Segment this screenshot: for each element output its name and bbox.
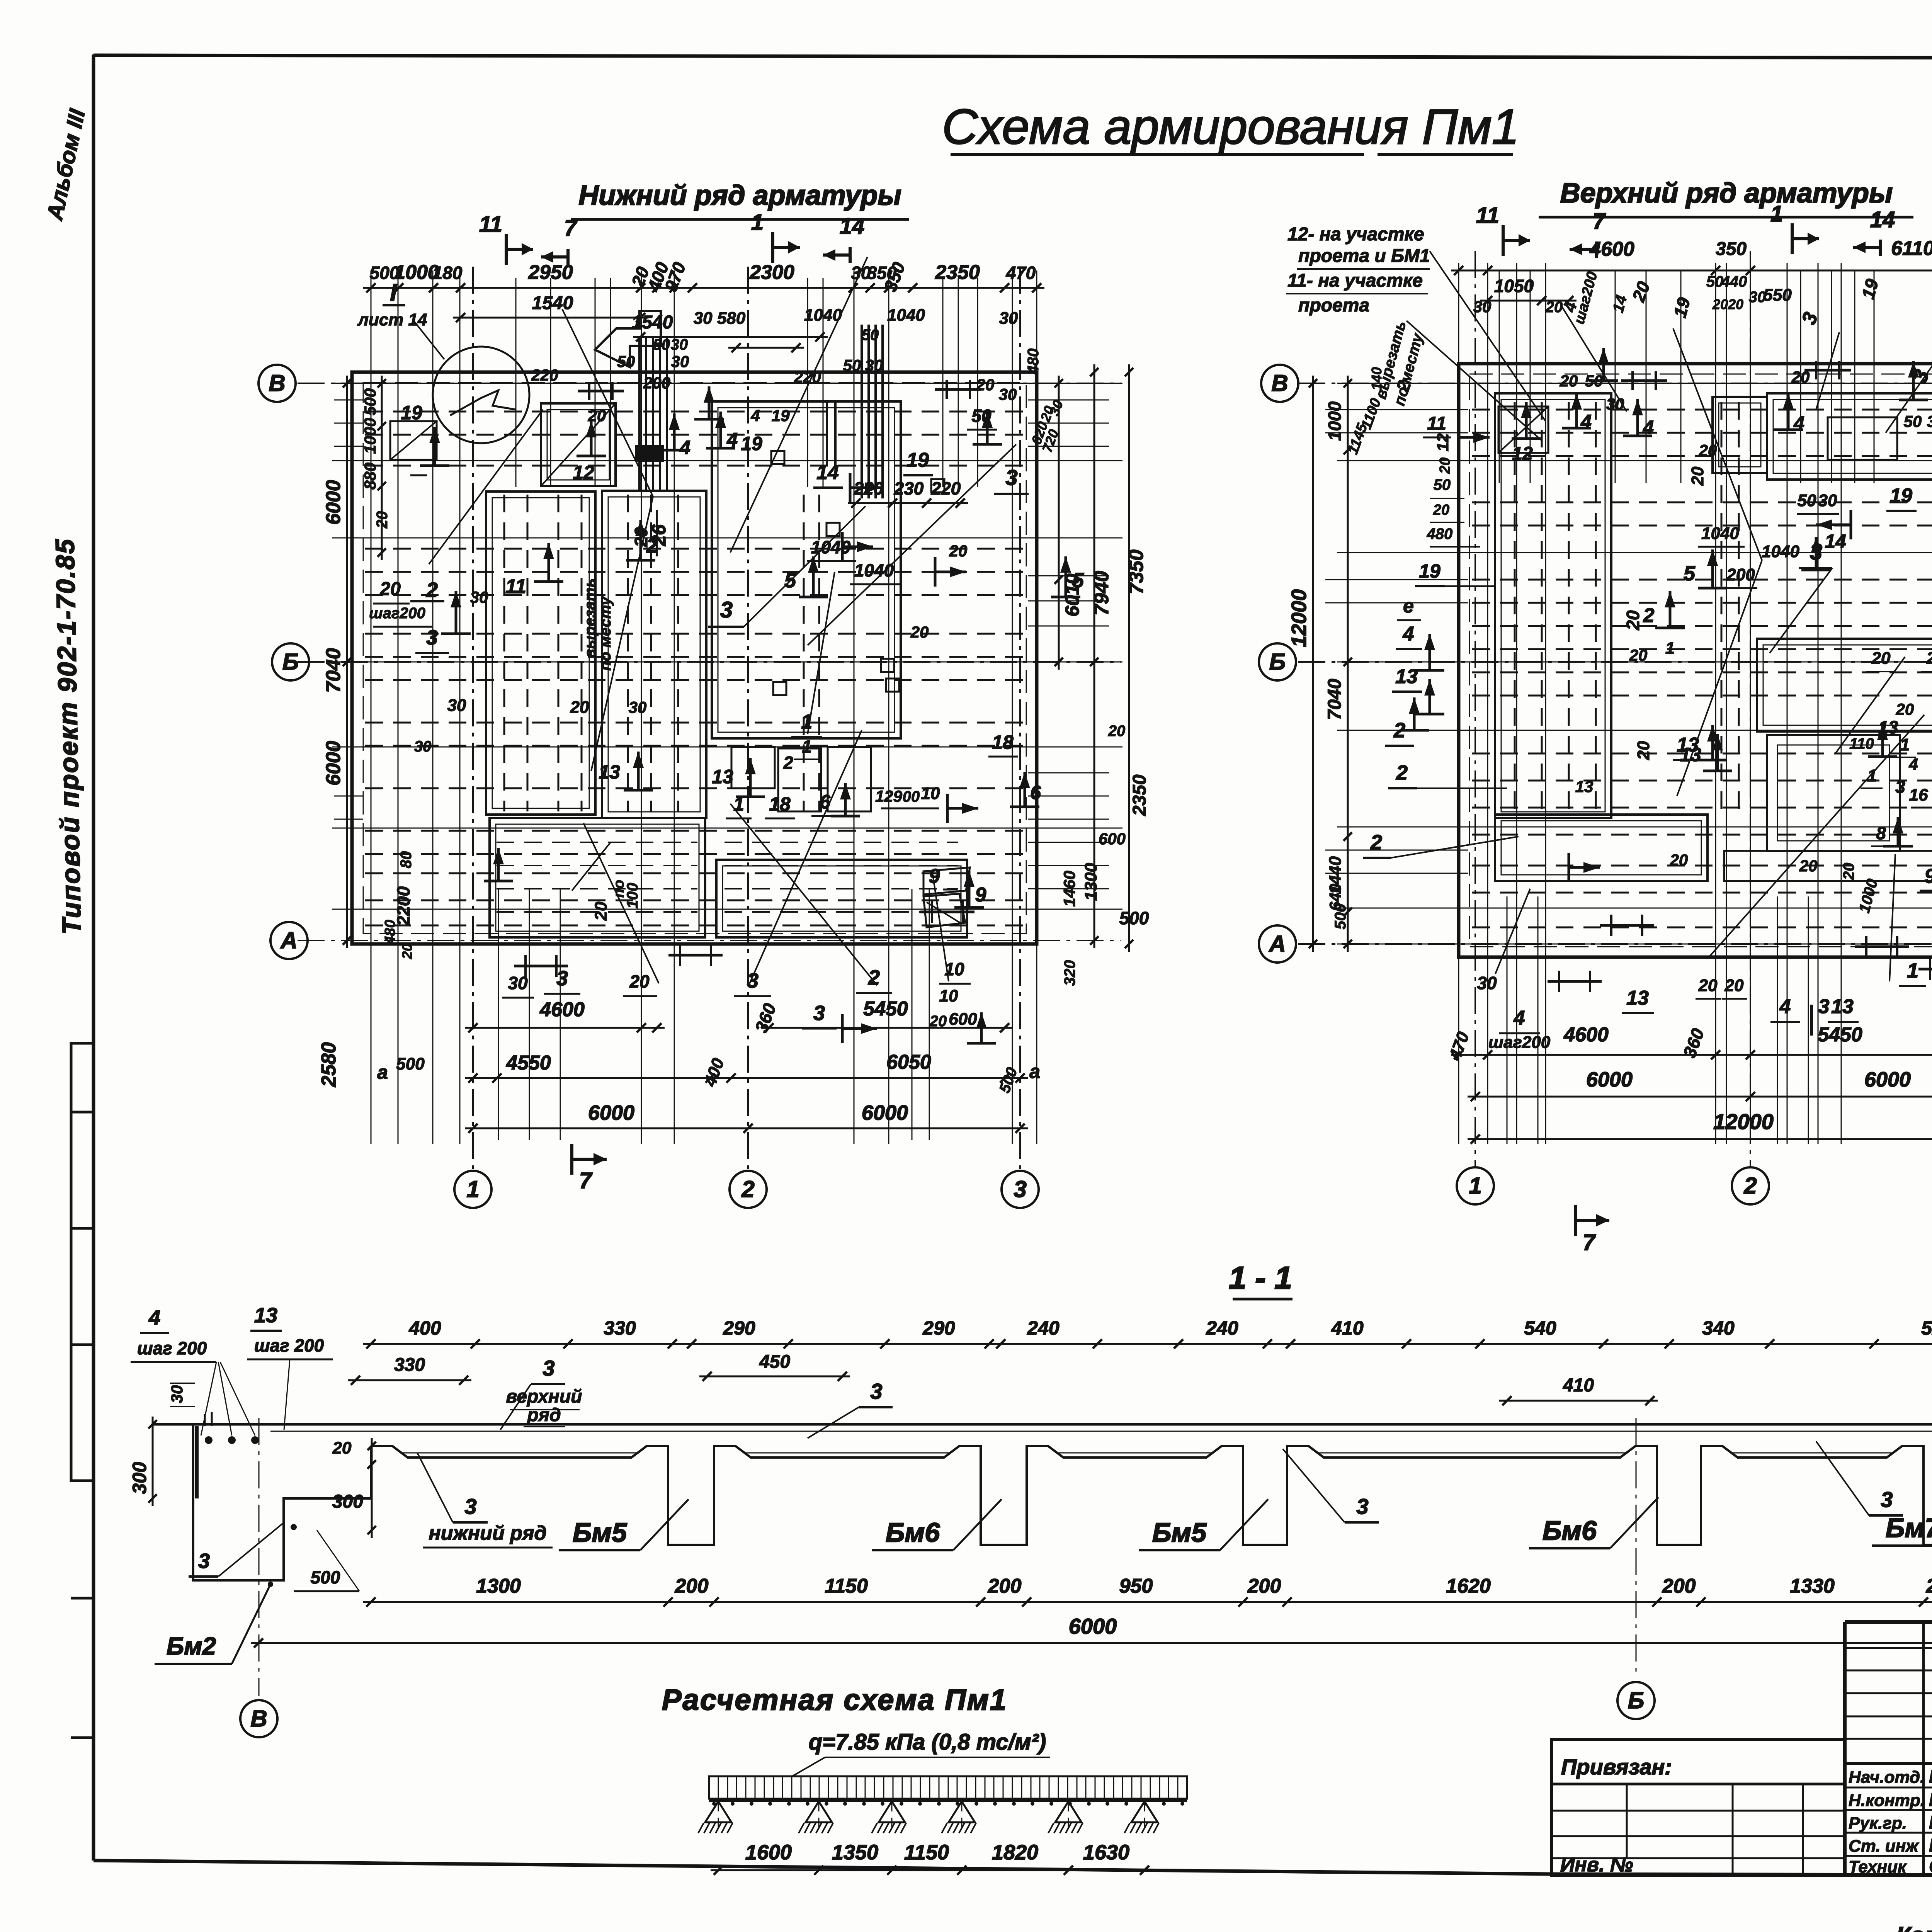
svg-text:4: 4	[679, 437, 690, 458]
left dims left plan	[318, 376, 589, 1087]
svg-text:1: 1	[1665, 639, 1675, 658]
section slab profile	[153, 1412, 1932, 1580]
svg-text:14: 14	[840, 214, 865, 239]
svg-text:600: 600	[949, 1010, 977, 1029]
axis circle A right	[1259, 925, 1296, 963]
svg-text:290: 290	[922, 1317, 955, 1339]
svg-text:12: 12	[1434, 434, 1452, 452]
right plan dashed rebar lines	[1472, 402, 1932, 927]
svg-text:30: 30	[671, 352, 689, 371]
svg-text:1040: 1040	[887, 306, 925, 325]
section bottom dims	[251, 1575, 1932, 1648]
left plan title	[571, 180, 909, 219]
svg-text:3: 3	[1895, 777, 1905, 797]
svg-text:6000: 6000	[862, 1101, 908, 1124]
svg-text:4: 4	[1514, 1007, 1525, 1029]
svg-text:13: 13	[1575, 777, 1594, 796]
svg-text:129: 129	[875, 787, 903, 805]
left dims right plan	[1287, 319, 1480, 952]
svg-text:30: 30	[414, 738, 432, 755]
svg-text:Привязан:: Привязан:	[1561, 1755, 1672, 1779]
svg-text:20: 20	[374, 511, 391, 529]
svg-text:20: 20	[1840, 863, 1857, 881]
svg-text:проета: проета	[1298, 295, 1369, 316]
svg-text:лист 14: лист 14	[357, 310, 427, 329]
svg-text:30 580: 30 580	[694, 309, 746, 328]
svg-text:10: 10	[944, 959, 964, 979]
svg-text:2: 2	[741, 1176, 754, 1202]
extra small labels left plan	[470, 352, 1017, 881]
axis circle 2 left	[730, 1171, 767, 1208]
privyazan table	[1551, 1740, 1845, 1876]
svg-text:20: 20	[1688, 466, 1707, 486]
svg-text:20: 20	[379, 579, 401, 599]
svg-text:7: 7	[579, 1168, 593, 1193]
svg-text:30: 30	[999, 309, 1018, 328]
title block stamp	[1551, 1622, 1932, 1875]
axis circle B left	[272, 643, 309, 680]
svg-text:1460: 1460	[1060, 871, 1078, 906]
right plan leader diagonals	[1406, 305, 1932, 1082]
axis circle 1 left	[454, 1171, 492, 1208]
svg-text:300: 300	[129, 1462, 150, 1494]
svg-text:80: 80	[398, 851, 415, 869]
svg-text:10: 10	[921, 784, 940, 803]
svg-text:7350: 7350	[1125, 549, 1148, 594]
svg-text:470: 470	[1006, 263, 1036, 283]
svg-text:Кунцевич: Кунцевич	[1929, 1813, 1932, 1833]
svg-text:950: 950	[1119, 1575, 1153, 1597]
right dims left plan	[1025, 349, 1150, 986]
section title 1-1	[1229, 1260, 1293, 1299]
svg-text:220: 220	[794, 368, 821, 386]
svg-text:20: 20	[399, 944, 415, 959]
svg-text:Верхний ряд арматуры: Верхний ряд арматуры	[1560, 178, 1893, 209]
svg-text:3: 3	[813, 1002, 825, 1025]
svg-text:30: 30	[447, 696, 466, 715]
svg-text:3: 3	[870, 1379, 882, 1403]
svg-text:1000: 1000	[361, 418, 379, 454]
svg-text:шаг 200: шаг 200	[137, 1338, 207, 1358]
svg-text:500: 500	[311, 1567, 340, 1587]
svg-text:7: 7	[1593, 209, 1606, 234]
svg-text:19: 19	[741, 433, 762, 454]
svg-text:13: 13	[1878, 717, 1898, 737]
left plan internal rects	[390, 401, 970, 937]
svg-text:2300: 2300	[749, 261, 794, 284]
svg-text:4600: 4600	[539, 998, 585, 1021]
svg-text:11: 11	[1427, 413, 1446, 434]
svg-text:200: 200	[1662, 1575, 1696, 1597]
svg-text:30: 30	[1818, 491, 1837, 510]
svg-text:6000: 6000	[322, 741, 345, 786]
svg-text:4: 4	[1643, 417, 1654, 438]
right plan axis lines	[1298, 251, 1932, 1167]
svg-text:50: 50	[617, 352, 635, 371]
top-left label block right plan	[1286, 224, 1546, 421]
rebar symbols left plan	[369, 402, 1084, 921]
right plan outline	[1459, 364, 1932, 957]
svg-text:2: 2	[1743, 1173, 1757, 1199]
svg-text:500: 500	[361, 388, 379, 415]
svg-text:q=7.85 кПа (0,8 тс/м²): q=7.85 кПа (0,8 тс/м²)	[809, 1730, 1046, 1755]
svg-text:3: 3	[747, 969, 759, 992]
rebar clusters right plan top	[1621, 361, 1932, 390]
svg-text:1: 1	[1770, 201, 1783, 226]
svg-text:1 - 1: 1 - 1	[1229, 1260, 1292, 1296]
rebar symbols right plan	[1512, 361, 1932, 915]
svg-text:1150: 1150	[825, 1575, 868, 1597]
svg-text:2: 2	[1370, 831, 1382, 854]
axis circle B right	[1259, 643, 1296, 680]
svg-text:520: 520	[1921, 1317, 1932, 1339]
svg-text:4600: 4600	[1563, 1024, 1609, 1046]
section top dims	[348, 1317, 1932, 1405]
svg-text:20: 20	[1560, 372, 1578, 390]
svg-text:12000: 12000	[1287, 589, 1311, 647]
svg-text:3: 3	[556, 967, 568, 990]
svg-text:220: 220	[931, 478, 961, 498]
svg-text:3: 3	[426, 626, 438, 649]
left margin labels right plan	[1345, 378, 1799, 858]
svg-text:1000: 1000	[394, 261, 439, 284]
svg-text:20: 20	[1725, 976, 1744, 995]
svg-text:Власенко: Власенко	[1929, 1790, 1932, 1810]
svg-text:Техник: Техник	[1849, 1857, 1907, 1876]
svg-text:50: 50	[1434, 476, 1451, 493]
svg-text:Нач.отд.: Нач.отд.	[1849, 1768, 1925, 1787]
svg-text:50: 50	[653, 336, 670, 353]
svg-text:1: 1	[802, 736, 812, 757]
bottom dims left plan	[377, 986, 1040, 1133]
main title	[942, 99, 1519, 155]
svg-text:4: 4	[1779, 995, 1791, 1018]
svg-text:3: 3	[1005, 465, 1017, 490]
svg-text:340: 340	[1702, 1317, 1735, 1339]
svg-text:12: 12	[573, 462, 594, 483]
svg-text:В: В	[269, 370, 285, 396]
svg-text:20: 20	[1728, 296, 1743, 312]
svg-text:290: 290	[723, 1317, 755, 1339]
svg-text:19: 19	[401, 402, 422, 423]
svg-text:20: 20	[1629, 646, 1648, 664]
svg-text:6000: 6000	[1586, 1068, 1633, 1091]
right plan internal rects	[1495, 393, 1932, 897]
left plan detail circle I	[357, 279, 529, 443]
svg-text:20: 20	[929, 1013, 947, 1030]
svg-text:по месту: по месту	[597, 596, 614, 671]
svg-text:1: 1	[466, 1176, 479, 1202]
svg-text:500: 500	[1119, 908, 1149, 928]
svg-text:2: 2	[1643, 604, 1655, 627]
binding marks left edge	[71, 1043, 94, 1738]
right plan extension lines	[1325, 263, 1932, 1144]
svg-text:1040: 1040	[804, 306, 842, 325]
svg-text:20: 20	[1712, 296, 1728, 312]
svg-text:50: 50	[1904, 412, 1922, 430]
svg-text:13: 13	[712, 766, 733, 787]
svg-text:2350: 2350	[1129, 774, 1150, 816]
svg-text:200: 200	[675, 1575, 709, 1597]
svg-text:500: 500	[1332, 904, 1349, 930]
svg-text:13: 13	[1395, 665, 1418, 688]
svg-text:а: а	[1029, 1061, 1040, 1082]
svg-text:230: 230	[894, 478, 924, 498]
svg-text:5: 5	[1684, 562, 1696, 585]
svg-text:19: 19	[1890, 485, 1912, 507]
svg-text:7: 7	[1583, 1230, 1596, 1255]
svg-text:2: 2	[783, 753, 793, 773]
svg-text:50: 50	[1706, 273, 1724, 290]
svg-text:240: 240	[1027, 1317, 1060, 1339]
svg-text:13: 13	[1626, 987, 1649, 1009]
svg-text:30: 30	[999, 385, 1017, 403]
svg-text:20: 20	[1871, 649, 1891, 668]
section mark 7 below left plan	[572, 1144, 607, 1193]
svg-text:3: 3	[1818, 995, 1830, 1018]
svg-text:200: 200	[643, 374, 670, 392]
svg-text:300: 300	[332, 1492, 363, 1512]
section marks top left plan	[479, 210, 864, 265]
svg-text:20: 20	[1623, 610, 1643, 631]
svg-text:19: 19	[1419, 560, 1440, 582]
bottom dims right plan	[1445, 958, 1932, 1144]
svg-text:1: 1	[1469, 1173, 1481, 1199]
svg-text:8: 8	[1876, 823, 1886, 843]
svg-text:Расчетная схема Пм1: Расчетная схема Пм1	[662, 1684, 1007, 1716]
svg-text:20: 20	[592, 901, 611, 921]
svg-text:6000: 6000	[1069, 1614, 1117, 1638]
svg-text:20: 20	[570, 698, 589, 717]
svg-text:4: 4	[1403, 623, 1414, 645]
svg-text:1: 1	[751, 210, 764, 235]
svg-text:18: 18	[992, 731, 1014, 753]
svg-text:20: 20	[1670, 851, 1688, 869]
svg-text:30: 30	[1477, 973, 1497, 993]
svg-text:880: 880	[361, 463, 379, 490]
svg-text:30: 30	[1473, 298, 1492, 316]
left plan extension lines	[332, 270, 1122, 1144]
svg-text:1330: 1330	[1790, 1575, 1835, 1597]
svg-text:2950: 2950	[528, 261, 573, 284]
svg-text:1630: 1630	[1083, 1841, 1129, 1864]
svg-text:200: 200	[1926, 1575, 1932, 1597]
svg-text:1040: 1040	[1762, 542, 1799, 561]
svg-text:7040: 7040	[1325, 679, 1345, 720]
svg-text:Н.контр.: Н.контр.	[1849, 1791, 1925, 1810]
svg-text:3: 3	[1356, 1494, 1368, 1519]
svg-text:13: 13	[599, 761, 620, 783]
svg-text:50: 50	[862, 327, 879, 344]
svg-text:шаг200: шаг200	[369, 605, 425, 622]
svg-text:30: 30	[168, 1385, 186, 1403]
axis circle 2 right	[1732, 1167, 1769, 1204]
section labels row	[417, 1356, 1932, 1550]
svg-text:по: по	[611, 880, 627, 898]
svg-text:480: 480	[1427, 526, 1453, 543]
svg-text:Шманоид: Шманоид	[1929, 1835, 1932, 1856]
svg-text:20: 20	[976, 376, 995, 394]
svg-text:30: 30	[671, 336, 688, 353]
svg-text:20: 20	[332, 1439, 352, 1458]
svg-text:5450: 5450	[863, 998, 908, 1020]
svg-text:1620: 1620	[1446, 1575, 1491, 1597]
svg-text:10: 10	[939, 986, 958, 1005]
svg-text:110: 110	[1849, 735, 1874, 752]
svg-text:проета и БМ1: проета и БМ1	[1298, 246, 1430, 266]
svg-text:480: 480	[382, 920, 398, 944]
svg-text:50: 50	[1798, 491, 1816, 510]
axis circle A left	[270, 922, 308, 959]
svg-text:Б: Б	[1628, 1687, 1644, 1713]
svg-text:19: 19	[772, 406, 790, 425]
section left labels	[129, 1304, 376, 1591]
svg-text:1040: 1040	[1701, 524, 1739, 543]
svg-text:9: 9	[975, 884, 986, 906]
svg-text:20: 20	[1437, 457, 1453, 474]
svg-text:е: е	[1403, 595, 1414, 617]
svg-text:20: 20	[1108, 723, 1126, 740]
svg-text:Бм5: Бм5	[1152, 1517, 1207, 1548]
svg-text:В: В	[250, 1706, 267, 1731]
svg-text:7: 7	[564, 216, 578, 241]
right plan title	[1539, 178, 1913, 217]
section marks top right plan	[1476, 201, 1895, 258]
svg-text:20: 20	[910, 623, 929, 641]
svg-text:11: 11	[1476, 203, 1499, 228]
svg-text:шаг200: шаг200	[1488, 1033, 1551, 1052]
rebar clusters left plan edges	[514, 380, 981, 977]
svg-text:00: 00	[903, 788, 920, 805]
svg-text:1: 1	[801, 711, 813, 733]
svg-text:4550: 4550	[506, 1052, 551, 1074]
svg-text:3: 3	[1014, 1176, 1026, 1202]
svg-text:18: 18	[769, 793, 791, 815]
svg-text:2: 2	[1396, 761, 1408, 784]
bottom labels left plan	[502, 959, 996, 1043]
svg-text:6000: 6000	[322, 480, 345, 525]
Bm2 label	[155, 1582, 273, 1664]
left plan dashed rebar lines	[365, 412, 1024, 925]
svg-text:4: 4	[750, 406, 760, 425]
svg-text:6000: 6000	[588, 1101, 634, 1124]
svg-text:14: 14	[1870, 207, 1895, 232]
svg-text:12- на участке: 12- на участке	[1287, 224, 1424, 245]
svg-text:12: 12	[1512, 444, 1533, 464]
svg-text:240: 240	[1206, 1317, 1238, 1339]
svg-text:1300: 1300	[476, 1575, 521, 1597]
svg-text:20: 20	[629, 971, 650, 992]
svg-text:4: 4	[1908, 755, 1918, 773]
svg-text:20: 20	[1634, 741, 1653, 760]
svg-text:1540: 1540	[632, 312, 673, 333]
svg-text:1540: 1540	[532, 293, 573, 313]
top dims left plan	[363, 259, 1044, 353]
svg-text:13: 13	[1831, 995, 1854, 1018]
svg-text:2: 2	[868, 966, 880, 989]
svg-text:1000: 1000	[1325, 401, 1345, 441]
svg-text:410: 410	[1331, 1317, 1364, 1339]
svg-text:1: 1	[733, 793, 744, 815]
svg-text:3: 3	[1881, 1487, 1893, 1512]
svg-text:а: а	[377, 1061, 388, 1083]
svg-text:Копир. Кулешова: Копир. Кулешова	[1896, 1922, 1932, 1932]
svg-text:1150: 1150	[904, 1841, 949, 1864]
svg-text:180: 180	[433, 263, 463, 283]
svg-text:4600: 4600	[1589, 238, 1634, 260]
svg-text:3: 3	[464, 1494, 476, 1519]
svg-text:20: 20	[1699, 441, 1717, 459]
axis circle V right	[1261, 365, 1298, 402]
misc symbols below right plan	[1548, 915, 1932, 992]
svg-text:Ст. инж: Ст. инж	[1849, 1837, 1919, 1855]
svg-text:1350: 1350	[832, 1841, 878, 1864]
beam supports	[698, 1801, 1159, 1833]
svg-text:440: 440	[1721, 273, 1747, 290]
svg-text:20: 20	[1799, 857, 1818, 875]
svg-text:200: 200	[988, 1575, 1022, 1597]
svg-text:330: 330	[394, 1355, 425, 1375]
svg-text:30: 30	[1927, 412, 1932, 430]
svg-text:Бм5: Бм5	[573, 1517, 627, 1548]
svg-text:350: 350	[1716, 239, 1747, 259]
svg-text:450: 450	[759, 1352, 790, 1372]
svg-text:1: 1	[1907, 959, 1918, 982]
svg-text:600: 600	[1099, 830, 1126, 848]
svg-text:20: 20	[949, 542, 968, 560]
left plan outline	[352, 372, 1037, 944]
svg-text:4: 4	[726, 429, 738, 451]
svg-text:320: 320	[1061, 960, 1078, 986]
svg-text:30: 30	[865, 356, 883, 374]
left plan axis lines	[298, 267, 1121, 1171]
svg-text:13: 13	[254, 1304, 277, 1327]
svg-text:20: 20	[1896, 700, 1914, 718]
svg-text:16: 16	[1909, 786, 1928, 804]
svg-text:14: 14	[1825, 531, 1846, 552]
svg-text:Бм7: Бм7	[1886, 1513, 1932, 1543]
svg-text:3: 3	[543, 1356, 554, 1380]
stamp signature texts	[1849, 1767, 1932, 1877]
axis circle 1 right	[1457, 1167, 1494, 1204]
svg-text:В: В	[1271, 370, 1288, 396]
svg-text:11- на участке: 11- на участке	[1287, 270, 1423, 291]
svg-text:4: 4	[1793, 412, 1804, 434]
svg-text:А: А	[1268, 931, 1286, 957]
svg-text:9: 9	[1925, 865, 1932, 888]
svg-text:550: 550	[1763, 286, 1792, 304]
svg-text:20: 20	[1926, 649, 1932, 668]
left plan step cluster	[595, 311, 883, 498]
svg-text:26: 26	[648, 524, 670, 546]
svg-text:6: 6	[820, 791, 831, 813]
svg-text:6: 6	[1030, 782, 1041, 803]
svg-text:7040: 7040	[322, 648, 345, 693]
svg-text:12000: 12000	[1713, 1109, 1774, 1134]
beam with distributed load	[709, 1776, 1187, 1806]
svg-text:1040: 1040	[854, 560, 894, 580]
svg-text:6110: 6110	[1891, 237, 1932, 260]
section mark 7 below right plan	[1576, 1205, 1609, 1255]
svg-text:Слатенко: Слатенко	[1929, 1856, 1932, 1877]
svg-text:Бм2: Бм2	[167, 1632, 216, 1660]
svg-text:Схема армирования Пм1: Схема армирования Пм1	[942, 99, 1519, 155]
svg-text:500: 500	[396, 1054, 425, 1073]
svg-text:9: 9	[929, 865, 940, 888]
svg-text:1050: 1050	[1494, 276, 1534, 296]
svg-text:50: 50	[843, 356, 861, 374]
svg-text:Рук.гр.: Рук.гр.	[1849, 1814, 1907, 1833]
